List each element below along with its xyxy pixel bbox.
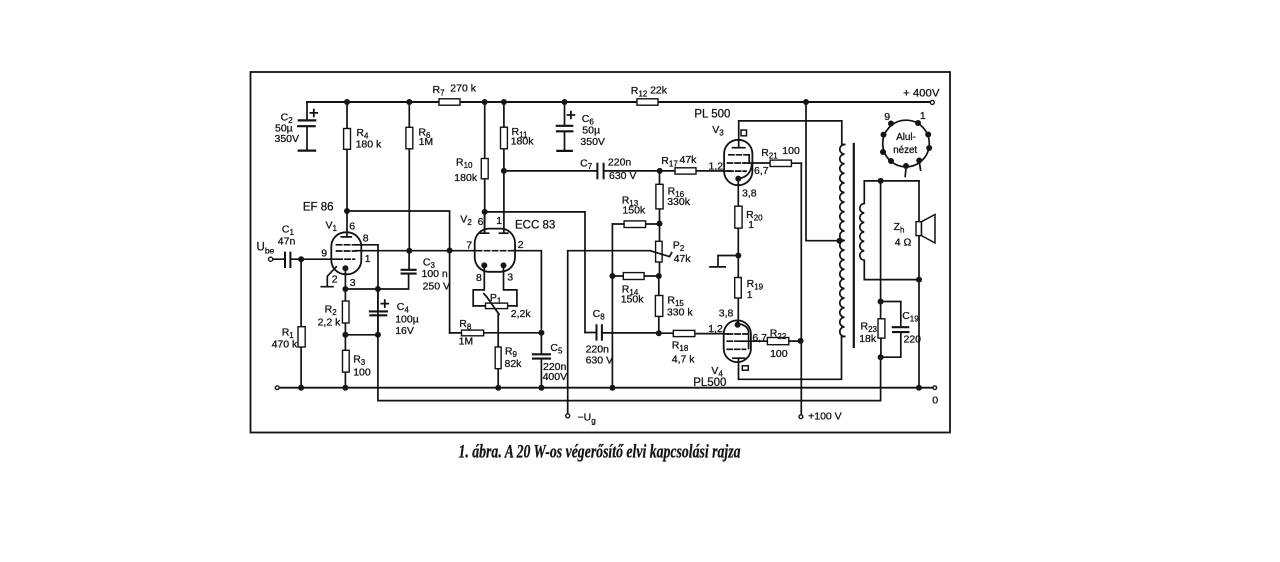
svg-text:R8: R8 [459,318,472,332]
svg-text:9: 9 [321,248,327,260]
junction node R16/R13 [657,221,663,227]
tube V1 grid dashes pin 9 row [337,258,355,260]
tube V4 beam plate curve [740,324,749,349]
svg-text:1M: 1M [419,136,434,148]
svg-text:250 V: 250 V [423,281,450,293]
tube V3 cathode lead [737,179,739,185]
tube V2 anode pin 6 [480,212,488,233]
junction node box/0V [916,385,922,391]
label R10 value [454,157,478,184]
svg-text:R12: R12 [631,85,648,99]
junction node R6/rail [406,99,412,105]
svg-text:47k: 47k [674,253,692,265]
svg-text:180k: 180k [454,172,478,184]
junction node R22/+100V line [798,338,804,344]
resistor R14 [612,273,658,280]
svg-text:R23: R23 [861,321,878,335]
transformer T1 secondary winding [860,181,865,280]
svg-text:C19: C19 [902,310,919,324]
label Zh load [894,221,912,249]
terminal 0V left [275,386,279,390]
label R2 value [318,304,342,329]
svg-text:100µ: 100µ [395,313,419,325]
svg-text:R18: R18 [672,340,689,354]
label C6 value [580,113,605,148]
svg-text:+ 400V: + 400V [903,87,940,99]
svg-text:630 V: 630 V [586,354,613,366]
svg-text:1: 1 [748,219,754,231]
tube V3 anode bar [733,147,745,149]
svg-text:C5: C5 [550,342,563,356]
junction node R23/C19 bottom [878,354,884,360]
load box Zh [864,181,919,280]
junction node R10/rail [482,99,488,105]
label R4 value [356,127,382,151]
wire R13/R14 left ends to 0V rail [611,224,613,388]
svg-text:C8: C8 [593,308,606,322]
pin labels V1 [321,221,371,289]
resistor R2 [342,289,349,335]
tube V1 cathode dot [342,265,348,271]
label R19 value [747,278,764,301]
junction node R6/V2 grid wire [406,248,412,254]
terminal +400V [930,100,934,104]
svg-text:R22: R22 [770,327,787,341]
wire V1 grid line to V2 grid pin 7 [356,250,475,252]
label C2 value [275,112,300,145]
svg-text:8: 8 [476,272,482,284]
transformer T1 primary winding [840,145,845,337]
tube V3 control grid row pin 1,2 [728,170,746,172]
junction node input/R1 [298,256,304,262]
svg-text:3,8: 3,8 [719,308,734,320]
terminal Ube input [269,257,273,261]
tube V1 anode (pin 6) [341,211,351,237]
tube V4 cathode dot [735,322,741,328]
svg-text:R21: R21 [761,147,778,161]
label R13 value [622,194,646,216]
ground chassis at R20/R19 node [710,256,738,267]
junction node C4 bottom [375,332,381,338]
resistor R21 [749,160,801,166]
resistor R8 [450,330,542,336]
junction node box bottom right [916,277,922,283]
resistor R18 [659,330,724,336]
svg-text:1,2: 1,2 [709,161,724,173]
tube V2 grid dashes pins 7/2 [477,250,514,252]
svg-text:3: 3 [350,277,356,289]
label R3 value [353,354,371,379]
junction node V1 anode/R4 [344,208,350,214]
svg-text:2: 2 [518,239,524,251]
wire R21/R22 screens to +100V terminal [800,163,802,415]
label R17 value [661,154,697,168]
label R23 value [859,321,877,346]
junction node R11/rail [501,99,507,105]
label R6 value [418,127,433,148]
socket pin dots [880,120,932,169]
junction node C5/0V [538,385,544,391]
wire load box bottom to 0V rail [918,280,920,388]
svg-text:PL 500: PL 500 [694,108,730,120]
svg-text:180k: 180k [511,136,535,148]
svg-text:0: 0 [932,395,938,407]
capacitor C8 [585,325,659,339]
label R14 value [621,283,645,305]
terminal 0V right [933,386,937,390]
pin labels V2 [466,215,524,284]
svg-text:4 Ω: 4 Ω [895,237,912,249]
resistor R17 [660,168,724,174]
svg-text:6,7: 6,7 [752,332,767,344]
label P2 value [673,240,691,266]
svg-text:R17: R17 [661,155,678,169]
label C3 value [422,257,451,293]
wire V2 grid pin 2 down to R8/C5 node [515,251,541,333]
junction node R20/R19 [735,253,741,259]
resistor R13 [612,221,659,228]
junction node R13R14/0V [609,385,615,391]
svg-text:2: 2 [332,274,338,286]
resistor R10 [481,102,488,233]
svg-text:22k: 22k [650,84,668,96]
capacitor C2 [298,102,317,151]
socket pin numbers [884,110,926,123]
label C1 value [278,223,296,247]
label R8 value [459,318,474,348]
tube V3 PL500 envelope [724,140,752,185]
tube V4 grid dashes row 3 [727,348,745,350]
svg-text:2,2k: 2,2k [511,308,532,320]
junction node V1 cathode [342,286,348,292]
capacitor C19 [881,302,909,358]
tube V3 grid entry wire [724,170,730,172]
svg-text:47n: 47n [278,235,296,247]
potentiometer P1 [473,294,517,315]
tube V2 cathode dot pin 8 [481,262,487,268]
svg-text:P1: P1 [490,292,502,306]
junction node C6/rail [562,99,568,105]
svg-text:100: 100 [353,366,371,378]
svg-text:EF 86: EF 86 [303,201,334,213]
tube V2 anode pin 1 [499,232,507,234]
junction node R15/C8/R18 [656,330,662,336]
resistor R23 [878,302,885,358]
tube V3 grid dashes row 1 [729,154,749,156]
capacitor C5 [533,333,550,388]
tube V1 pin 2 lead to chassis ground [321,267,336,287]
label R16 value [667,185,691,207]
label C8 value [586,308,613,366]
svg-text:220: 220 [904,333,922,345]
svg-text:V3: V3 [712,124,724,138]
tube V4 top cap symbol [742,366,748,370]
label R15 value [667,294,693,318]
svg-text:R9: R9 [505,345,518,359]
svg-text:Zh: Zh [894,221,905,235]
resistor R11 [501,102,508,233]
svg-text:7: 7 [466,239,472,251]
tube V4 PL500 envelope [724,320,751,362]
tube V1 EF86 envelope [331,232,361,274]
terminal -Ug [566,414,570,418]
tube V3 cathode dot [735,176,741,182]
svg-text:6: 6 [349,221,355,233]
capacitor C6 [557,102,575,151]
capacitor C7 [504,164,660,179]
svg-text:C7: C7 [580,157,593,171]
label R22 value [770,327,788,360]
svg-text:+100 V: +100 V [808,411,842,423]
label C4 value [395,301,419,337]
svg-text:16V: 16V [395,325,414,337]
wire 0V bottom rail [277,387,933,389]
svg-text:1: 1 [747,289,753,301]
label C7 value [580,156,636,182]
svg-text:350V: 350V [580,136,605,148]
label R20 value [746,209,763,231]
pin labels V3 [709,161,769,200]
svg-text:150k: 150k [621,293,645,305]
wire feedback tap from secondary top to R23/C19 top [880,181,882,302]
junction node W1/V2 grid wire [447,248,453,254]
svg-text:R7: R7 [433,84,446,98]
resistor R9 [495,314,501,388]
junction node R11/C7 [501,168,507,174]
svg-text:R3: R3 [353,354,366,368]
svg-text:400V: 400V [543,371,568,383]
junction node R14 left [609,273,615,279]
label R11 value [511,126,535,148]
svg-text:R10: R10 [456,157,473,171]
tube V3 top cap symbol [741,130,747,136]
wire R2 bottom to C4 bottom [345,334,378,336]
wire V3 anode top cap to transformer primary top [739,121,845,148]
svg-text:100: 100 [782,145,800,157]
junction node R23/C19 top [878,299,884,305]
svg-text:180 k: 180 k [356,138,382,150]
svg-text:Alul-: Alul- [896,132,916,143]
capacitor C3 [402,251,416,274]
junction node R14 right [656,273,662,279]
wire secondary top to load box [864,180,919,182]
svg-text:1,2: 1,2 [708,323,723,335]
wire feedback line from C4 node to R23/C19 node [378,289,881,401]
wire +400V rail right segment [658,101,931,103]
svg-text:P2: P2 [673,240,685,254]
tube V4 screen row to R22 [727,340,742,342]
svg-text:270 k: 270 k [450,82,476,94]
potentiometer P2 [650,224,672,276]
tube V2 ECC83 envelope [475,229,515,272]
resistor R1 [298,259,305,388]
junction node C7/R17/R16 [657,168,663,174]
wire rail to transformer centre tap [806,102,844,241]
wire V1 cathode node [345,274,408,289]
wire -Ug bias line to P2 wiper [568,251,650,414]
label R1 value [272,326,298,350]
svg-text:1: 1 [920,110,926,122]
wire V2 pin6 anode node to C8 [485,212,585,333]
tube V3 beam plate curve [740,165,752,179]
svg-text:V2: V2 [460,214,472,228]
junction node R3/0V [342,385,348,391]
svg-text:150k: 150k [622,205,646,217]
label P1 value [490,292,531,320]
loudspeaker [916,215,935,244]
svg-text:470 k: 470 k [272,338,298,350]
resistor R12 [637,99,658,105]
svg-text:330k: 330k [667,196,691,208]
resistor R19 [735,256,742,325]
resistor R20 [735,185,742,256]
wire V2 cathode pin 3 to P1 right [504,265,517,306]
junction node transformer centre tap [837,238,843,244]
resistor R4 [344,102,351,211]
svg-text:100: 100 [770,348,788,360]
svg-text:6: 6 [478,216,484,228]
wire V4 anode to transformer primary bottom [739,337,845,380]
capacitor C1 [273,253,302,267]
junction node V2 pin6/R10 [482,209,488,215]
svg-text:R2: R2 [325,304,338,318]
resistor R15 [655,276,662,334]
label R9 value [505,345,523,370]
junction node V1 pin8/C4 [375,286,381,292]
svg-text:3: 3 [507,271,513,283]
svg-text:ECC 83: ECC 83 [515,220,555,232]
svg-text:Ube: Ube [257,241,275,255]
svg-text:nézet: nézet [893,145,917,156]
terminal +100V [799,415,803,419]
tube V4 grid row pin 1,2 [724,333,748,335]
svg-text:6,7: 6,7 [754,165,769,177]
svg-text:−Ug: −Ug [578,411,596,425]
label R7 value [433,82,477,97]
svg-text:3,8: 3,8 [742,188,757,200]
resistor R3 [343,335,350,388]
svg-text:9: 9 [884,111,890,123]
tube V3 screen row and jog to R21 [728,155,750,163]
capacitor C4 [370,289,388,335]
resistor R6 [406,102,413,251]
svg-text:PL500: PL500 [693,377,726,389]
resistor R16 [656,171,663,224]
junction node secondary top feedback tap [878,178,884,184]
svg-text:47k: 47k [680,154,698,166]
wire +400V rail middle segment [460,101,637,103]
resistor R22 [742,338,801,345]
svg-text:220n: 220n [608,156,632,168]
wire V2 cathode pin 8 to P1 left [473,265,484,306]
svg-text:100 n: 100 n [422,268,448,280]
svg-text:82k: 82k [505,358,523,370]
tube V1 grid dashes pin 1 row [337,250,357,252]
tube V4 cathode lead [737,320,739,324]
svg-text:18k: 18k [859,333,877,345]
pin labels V4 [708,308,767,345]
svg-text:8: 8 [363,233,369,245]
label R12 value [631,84,668,98]
label R21 value [761,145,800,161]
junction node R2/C4 [342,332,348,338]
junction node R9/0V [495,385,501,391]
tube V1 grid dashes pin 8 row [337,245,379,289]
svg-text:1: 1 [496,215,502,227]
svg-text:V1: V1 [326,220,338,234]
wire input to V1 grid pin 9 [301,258,336,260]
junction node V2 pin2/R8/C5 [538,330,544,336]
label C19 value [902,310,921,345]
junction node R4/rail [344,99,350,105]
svg-text:50µ: 50µ [582,124,600,136]
tube V1 cathode pin 3 [344,268,346,289]
junction node transformer feed/rail [803,99,809,105]
label socket bottom view [893,132,917,156]
tube socket alignment ticks [905,164,920,177]
label R18 value [672,340,696,366]
svg-text:330 k: 330 k [667,307,693,319]
transformer T1 core [853,144,855,347]
svg-text:1. ábra. A 20 W-os végerősítő: 1. ábra. A 20 W-os végerősítő elvi kapcs… [459,442,741,463]
svg-text:4,7 k: 4,7 k [672,353,696,365]
tube socket bottom view circle [883,120,930,167]
tube V4 anode bar [733,357,745,359]
svg-text:2,2 k: 2,2 k [318,316,342,328]
junction node R1/0V [298,385,304,391]
svg-text:350V: 350V [275,133,300,145]
svg-text:1M: 1M [459,335,474,347]
svg-text:630 V: 630 V [609,170,636,182]
svg-text:1: 1 [365,253,371,265]
wire +400V rail left segment [307,101,439,103]
tube V2 cathode dot pin 3 [501,262,507,268]
wire V1 anode node to V2 grid node and R8 [347,211,450,333]
resistor R7 [439,99,460,105]
label C5 value [543,342,568,383]
